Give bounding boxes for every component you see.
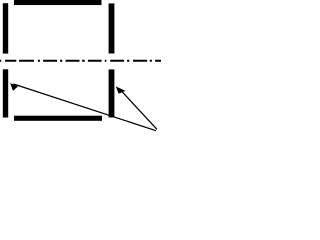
left electrode upper segment [3,3,8,53]
right electrode lower segment [109,69,115,117]
right electrode upper segment [109,3,115,53]
bottom wall bar [14,116,102,121]
arrowhead at right electrode [116,86,126,93]
leader line to left electrode [14,84,157,131]
top wall bar [14,0,102,5]
center line (dash-dot axis) [0,60,161,62]
left electrode lower segment [3,69,8,117]
leader line to right electrode [121,90,157,129]
arrowhead at left electrode [10,83,18,91]
